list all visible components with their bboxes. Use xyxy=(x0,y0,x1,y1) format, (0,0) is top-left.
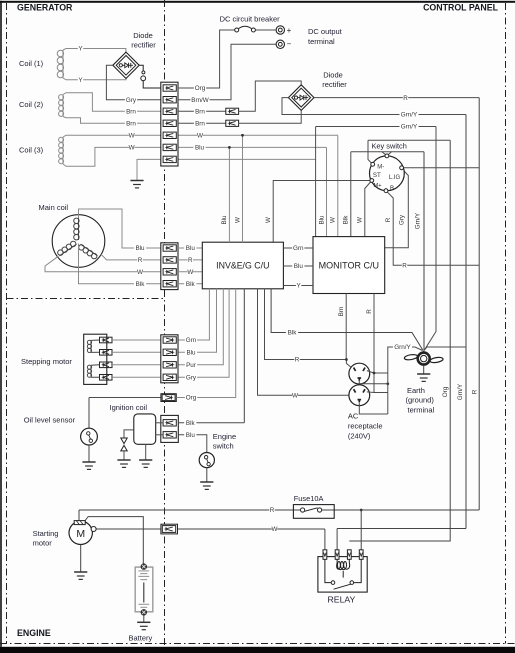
svg-text:(ground): (ground) xyxy=(406,396,435,405)
svg-text:W: W xyxy=(357,217,364,223)
svg-text:Grn/Y: Grn/Y xyxy=(414,212,421,229)
svg-text:Org: Org xyxy=(442,386,449,397)
svg-text:R: R xyxy=(402,263,407,270)
svg-text:R: R xyxy=(366,309,373,314)
svg-text:Earth: Earth xyxy=(407,386,425,395)
svg-text:W: W xyxy=(187,269,193,276)
svg-text:W: W xyxy=(292,393,298,400)
svg-text:Coil (3): Coil (3) xyxy=(19,146,44,155)
svg-text:receptacle: receptacle xyxy=(348,421,383,430)
svg-text:W: W xyxy=(272,526,278,533)
svg-text:ST: ST xyxy=(373,172,381,179)
svg-text:terminal: terminal xyxy=(308,37,335,46)
svg-text:Main coil: Main coil xyxy=(39,203,69,212)
svg-text:Fuse10A: Fuse10A xyxy=(294,494,324,503)
svg-text:Grn: Grn xyxy=(293,245,304,252)
svg-text:(240V): (240V) xyxy=(348,432,371,441)
svg-text:Grn: Grn xyxy=(186,337,197,344)
svg-text:Blk: Blk xyxy=(186,281,196,288)
svg-text:DC circuit breaker: DC circuit breaker xyxy=(220,14,281,23)
svg-text:R: R xyxy=(188,257,193,264)
svg-text:R: R xyxy=(270,507,275,514)
svg-text:Pur: Pur xyxy=(186,362,196,369)
svg-text:Brn: Brn xyxy=(195,109,205,116)
svg-text:ENGINE: ENGINE xyxy=(17,628,51,638)
svg-text:terminal: terminal xyxy=(408,405,435,414)
svg-text:Blu: Blu xyxy=(221,215,228,225)
svg-text:W: W xyxy=(137,269,143,276)
svg-text:Diode: Diode xyxy=(133,31,153,40)
svg-text:Brn/W: Brn/W xyxy=(191,97,209,104)
svg-text:Brn: Brn xyxy=(126,121,136,128)
svg-text:Ignition coil: Ignition coil xyxy=(110,403,148,412)
svg-text:motor: motor xyxy=(33,539,53,548)
svg-text:+: + xyxy=(287,26,292,35)
svg-text:Blk: Blk xyxy=(343,215,350,225)
svg-text:R: R xyxy=(295,357,300,364)
svg-text:M+: M+ xyxy=(374,183,382,189)
svg-text:Blu: Blu xyxy=(294,263,304,270)
svg-text:Blk: Blk xyxy=(288,330,298,337)
svg-text:Battery: Battery xyxy=(129,634,153,643)
svg-text:R: R xyxy=(138,257,143,264)
svg-text:switch: switch xyxy=(213,441,234,450)
svg-text:M-: M- xyxy=(377,165,384,171)
svg-text:Grn/Y: Grn/Y xyxy=(401,124,418,131)
svg-text:AC: AC xyxy=(348,411,359,420)
svg-text:Diode: Diode xyxy=(323,71,343,80)
svg-text:W: W xyxy=(129,133,135,140)
svg-text:Brn: Brn xyxy=(126,109,136,116)
svg-text:Grn/Y: Grn/Y xyxy=(457,383,464,400)
svg-text:Stepping motor: Stepping motor xyxy=(21,357,72,366)
svg-text:W: W xyxy=(234,217,241,223)
svg-text:Engine: Engine xyxy=(213,432,236,441)
svg-text:Key switch: Key switch xyxy=(372,142,407,151)
svg-text:rectifier: rectifier xyxy=(322,80,347,89)
svg-text:GENERATOR: GENERATOR xyxy=(17,3,73,13)
svg-text:CONTROL PANEL: CONTROL PANEL xyxy=(423,3,499,13)
svg-text:R: R xyxy=(471,389,478,394)
svg-text:W: W xyxy=(197,133,203,140)
svg-text:W: W xyxy=(330,217,337,223)
svg-text:Gry: Gry xyxy=(126,97,137,104)
svg-text:Blu: Blu xyxy=(186,432,196,439)
svg-text:INV&E/G C/U: INV&E/G C/U xyxy=(216,260,269,270)
svg-text:Grn/Y: Grn/Y xyxy=(401,112,418,119)
svg-text:Blu: Blu xyxy=(186,245,196,252)
svg-text:Oil level sensor: Oil level sensor xyxy=(24,416,76,425)
svg-text:Blu: Blu xyxy=(135,245,145,252)
svg-text:Coil (2): Coil (2) xyxy=(19,100,44,109)
svg-text:Brn: Brn xyxy=(338,306,345,316)
svg-text:MONITOR C/U: MONITOR C/U xyxy=(319,260,379,270)
svg-text:Starting: Starting xyxy=(33,529,59,538)
svg-text:Org: Org xyxy=(195,85,206,92)
svg-text:DC output: DC output xyxy=(308,27,343,36)
svg-text:Coil (1): Coil (1) xyxy=(19,59,44,68)
svg-text:Org: Org xyxy=(186,395,197,402)
svg-text:Gry: Gry xyxy=(399,214,406,225)
svg-text:Blu: Blu xyxy=(195,145,205,152)
svg-text:L.IG: L.IG xyxy=(389,175,401,181)
svg-text:−: − xyxy=(287,40,292,49)
svg-text:rectifier: rectifier xyxy=(131,40,156,49)
svg-text:R: R xyxy=(403,95,408,102)
svg-text:Brn: Brn xyxy=(195,121,205,128)
svg-text:Grn/Y: Grn/Y xyxy=(394,344,411,351)
svg-text:M: M xyxy=(76,528,85,540)
svg-text:B: B xyxy=(390,186,394,192)
svg-text:Gry: Gry xyxy=(186,375,197,382)
svg-text:Blk: Blk xyxy=(136,281,146,288)
svg-text:Blu: Blu xyxy=(318,215,325,225)
svg-text:W: W xyxy=(129,145,135,152)
svg-text:W: W xyxy=(265,217,272,223)
svg-text:RELAY: RELAY xyxy=(328,594,356,604)
svg-text:Blk: Blk xyxy=(186,420,196,427)
svg-text:R: R xyxy=(385,217,392,222)
svg-text:Blu: Blu xyxy=(186,350,196,357)
